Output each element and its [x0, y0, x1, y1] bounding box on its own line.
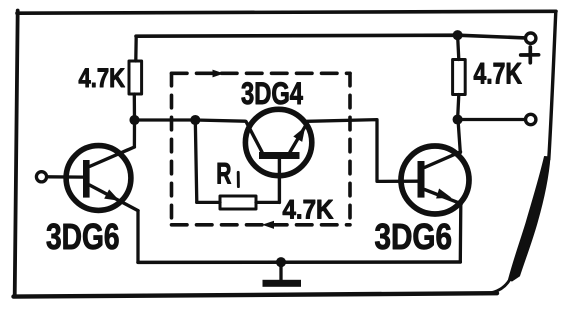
wire: R1 right lead to base stem	[256, 201, 279, 204]
transistor 3DG4 (middle)	[245, 109, 311, 175]
wire: Q3 collector up to node C	[458, 120, 460, 153]
arrow on dashed box bottom edge	[262, 221, 274, 229]
node B (junction dot)	[190, 115, 200, 125]
svg-text:3DG4: 3DG4	[241, 75, 303, 111]
svg-text:4.7K: 4.7K	[79, 63, 126, 93]
ground	[263, 262, 302, 287]
svg-text:R: R	[216, 157, 231, 190]
wire: node B down to R1	[195, 120, 197, 202]
wire: bottom emitter rail	[138, 260, 460, 264]
terminal: + output (upper right open circle)	[526, 33, 536, 43]
dashed enclosure box	[172, 73, 351, 225]
resistor 4.7K (left)	[129, 61, 142, 94]
wire: junction to right resistor	[458, 35, 459, 59]
node: top rail junction dot	[453, 30, 463, 40]
wire: 3DG4 emitter to Q3 base	[307, 120, 418, 182]
node C (junction dot)	[453, 114, 463, 124]
svg-text:4.7K: 4.7K	[474, 57, 523, 90]
wire: to R1 left lead	[197, 201, 220, 204]
transistor Q1 3DG6 (left)	[66, 146, 138, 211]
wire: Q3 emitter down to bottom rail	[459, 204, 463, 262]
wire: node A to node B	[135, 118, 196, 121]
wire: left resistor bottom to node A	[133, 94, 136, 120]
transistor Q3 3DG6 (right)	[401, 146, 469, 214]
wire: input terminal to Q1 base	[47, 175, 84, 179]
wire: top supply rail	[136, 35, 525, 38]
resistor 4.7K (right)	[453, 60, 466, 95]
wire: node A down to Q1 collector	[133, 120, 136, 147]
wire: 3DG4 base stem down	[278, 159, 281, 202]
node: ground junction dot	[276, 257, 286, 267]
terminal: lower output (open circle)	[526, 114, 536, 124]
wire: rail corner down to left resistor	[134, 36, 138, 61]
terminal: input (left open circle)	[36, 172, 46, 182]
arrow on dashed box top edge	[213, 70, 225, 78]
svg-text:3DG6: 3DG6	[46, 216, 120, 257]
resistor R1	[220, 196, 256, 209]
wire: Q1 emitter down	[136, 211, 139, 263]
wire: node B to 3DG4 collector	[195, 120, 245, 121]
svg-text:4.7K: 4.7K	[283, 195, 334, 225]
wire: right resistor bottom to node C	[458, 95, 459, 120]
label + polarity	[521, 47, 539, 63]
wire: node C to lower output terminal	[458, 118, 526, 121]
node A (junction dot)	[129, 115, 139, 125]
svg-text:3DG6: 3DG6	[375, 216, 453, 257]
